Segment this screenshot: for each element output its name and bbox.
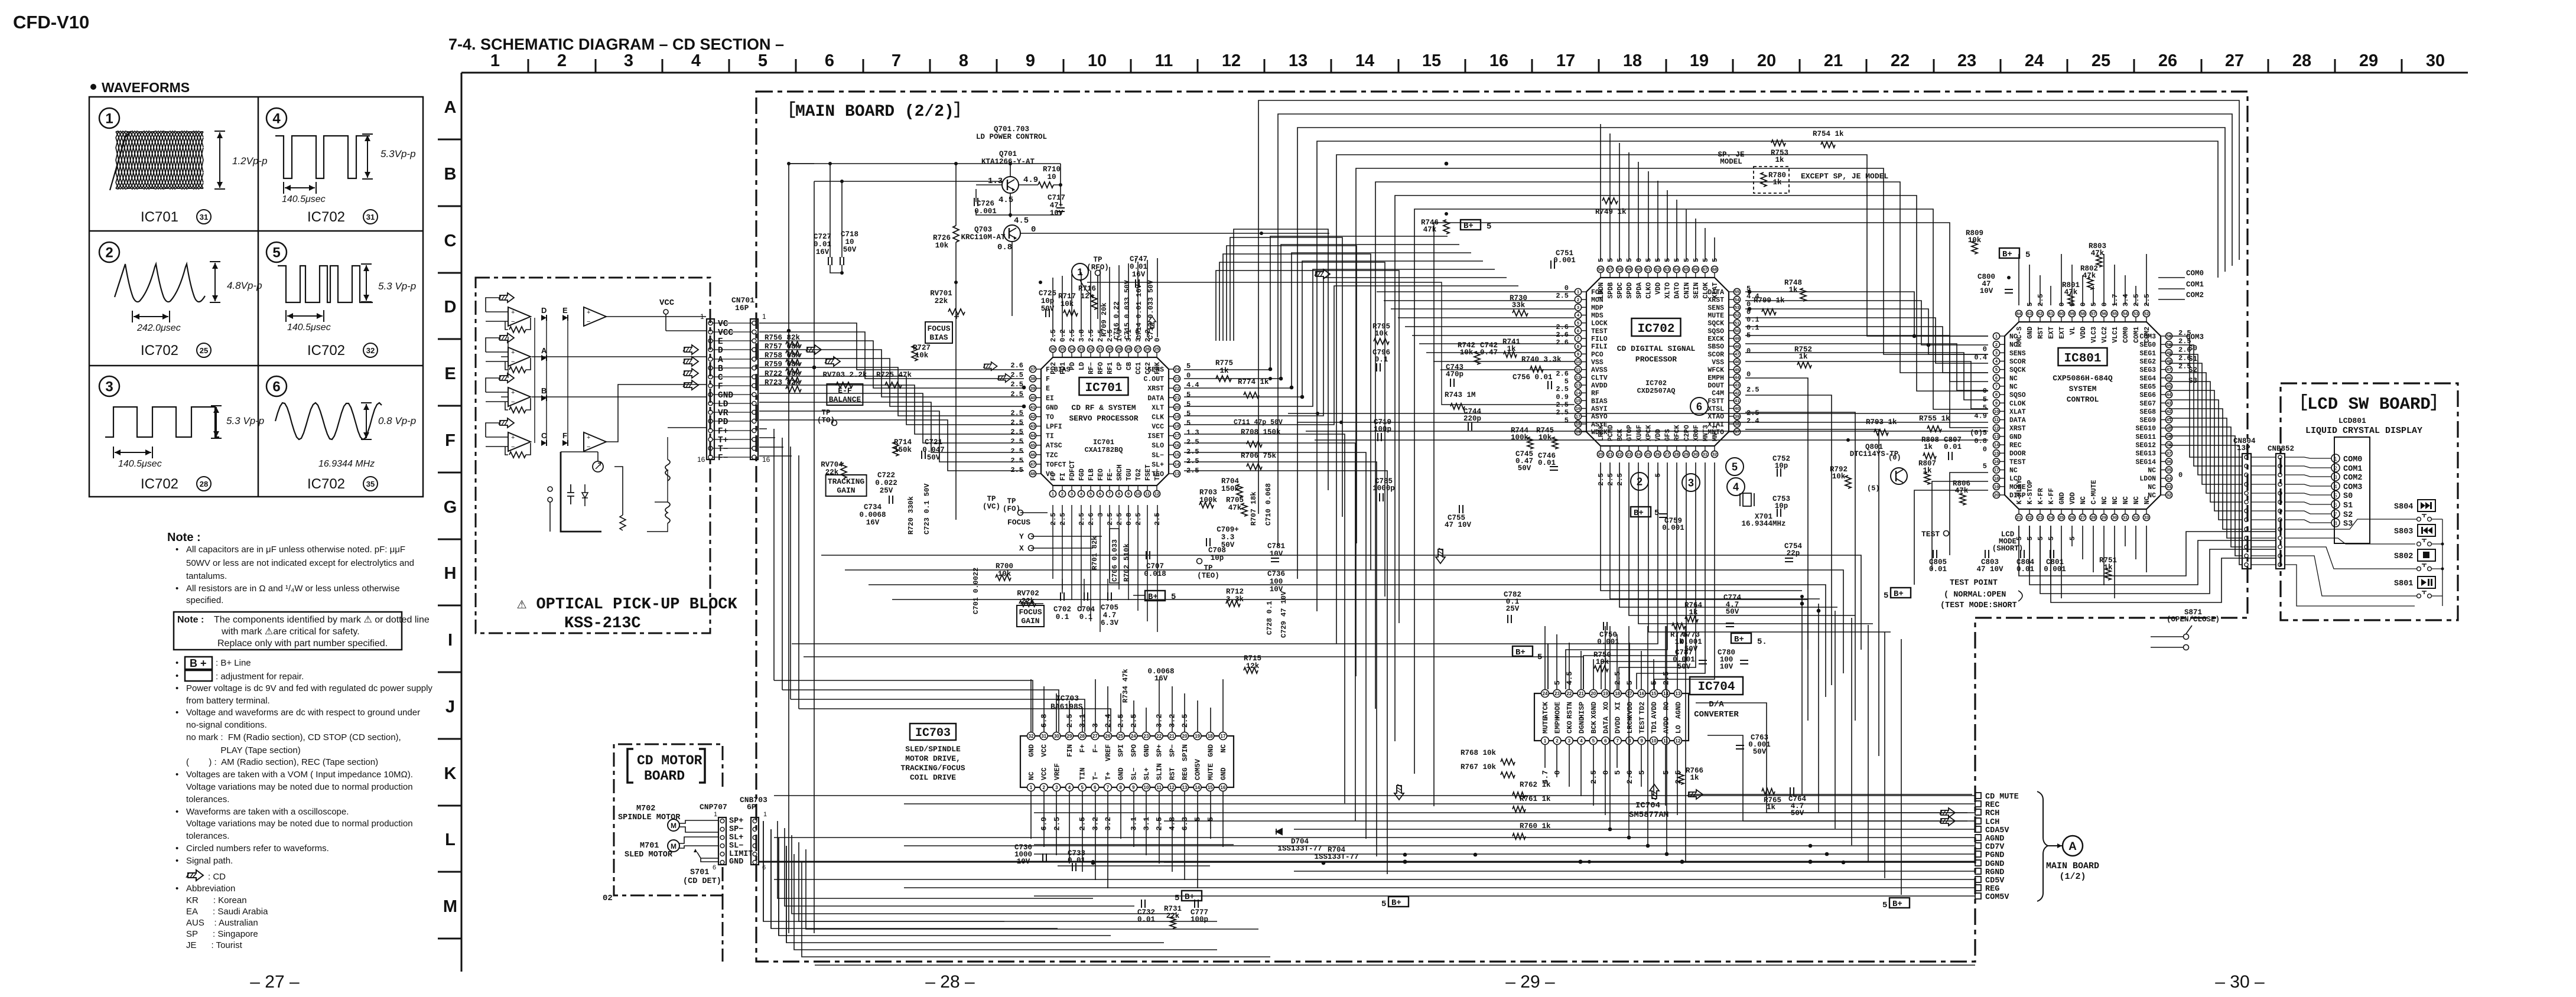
svg-text:150k: 150k [894,446,912,454]
svg-text:1: 1 [105,111,113,127]
svg-text:19: 19 [1576,429,1580,435]
svg-text:1k: 1k [1674,638,1684,646]
B+ bottom [1388,897,1409,907]
svg-text:14: 14 [1175,462,1180,467]
svg-text:GND: GND [718,391,733,400]
down arrow signal [1394,784,1404,800]
svg-text:RV702: RV702 [1017,589,1039,598]
IC702 right pins to IC801 left pins [1745,292,1988,336]
svg-text:MODE: MODE [1554,702,1562,719]
svg-text:29: 29 [1684,452,1689,457]
B+ right of IC702 bottom [1631,507,1651,517]
svg-text:R754 1k: R754 1k [1813,130,1844,138]
svg-text:GND: GND [1143,744,1151,757]
svg-text:10V: 10V [1720,663,1733,671]
svg-text:K: K [444,764,457,783]
svg-text:0: 0 [2058,302,2066,307]
svg-text:19: 19 [1690,51,1709,70]
svg-text:SQCK: SQCK [2009,367,2026,374]
laser diode assembly [593,461,603,472]
svg-text:48: 48 [1735,344,1739,349]
svg-text:33: 33 [2144,515,2149,520]
svg-text:2.5: 2.5 [1010,428,1023,436]
svg-text:TEST: TEST [1638,716,1647,734]
svg-text:5: 5 [1089,491,1092,497]
svg-text:T+: T+ [1104,772,1113,780]
svg-text:6: 6 [1604,738,1607,744]
svg-text:25V: 25V [880,487,893,495]
svg-text:F: F [1046,376,1050,383]
svg-text:22k: 22k [935,297,948,305]
svg-text:DATA: DATA [1602,716,1610,734]
svg-text:1: 1 [1577,289,1579,295]
svg-text:SYSTEM: SYSTEM [2069,385,2097,393]
svg-text:5: 5 [1638,770,1647,775]
svg-text:COM3: COM3 [2186,333,2204,341]
svg-text:R761 1k: R761 1k [1520,795,1551,803]
svg-text:PD: PD [718,418,728,427]
svg-text:1: 1 [1052,491,1054,497]
svg-text:SL+: SL+ [1143,767,1151,780]
svg-text:D: D [718,346,723,356]
svg-text:GND: GND [2058,492,2066,504]
svg-text:42: 42 [1735,390,1739,396]
svg-text:61: 61 [1645,267,1650,272]
svg-text:C707: C707 [1146,562,1164,571]
svg-text:22p: 22p [1787,549,1800,558]
svg-text:A: A [718,356,723,365]
svg-text:12: 12 [1222,51,1241,70]
svg-text:XROF: XROF [1693,425,1700,441]
svg-text:59: 59 [1627,267,1631,272]
left ruler line [461,73,463,972]
svg-text:21: 21 [1579,691,1584,696]
svg-text:CD DIGITAL SIGNAL: CD DIGITAL SIGNAL [1617,344,1696,353]
svg-text:•: • [175,658,178,668]
svg-text:E: E [444,364,456,383]
IC801 system control [2005,322,2161,509]
svg-text:42: 42 [1030,414,1035,419]
svg-text:XPCK: XPCK [1645,425,1653,441]
svg-text:C729 47 10V: C729 47 10V [1280,591,1288,638]
transistor Q701 [1002,177,1019,193]
svg-text:2.6: 2.6 [1556,331,1569,339]
svg-text:NC: NC [2009,375,2018,383]
svg-text:C734: C734 [864,503,882,511]
svg-text:52: 52 [2144,311,2149,317]
svg-text:SPDD: SPDD [1626,282,1634,299]
svg-text:SM5877AM: SM5877AM [1629,810,1668,820]
svg-text:T+: T+ [718,436,728,445]
svg-text:26: 26 [2070,515,2074,520]
svg-text:1.3: 1.3 [1115,329,1124,342]
svg-text:: adjustment for repair.: : adjustment for repair. [216,672,304,682]
svg-text:specified.: specified. [186,595,223,605]
svg-text:EXT: EXT [2048,327,2055,339]
svg-text:IC701: IC701 [141,209,178,225]
svg-text:5: 5 [1614,770,1622,775]
svg-text:2.5: 2.5 [1614,671,1622,685]
svg-text:5: 5 [1625,258,1634,262]
svg-text:F: F [718,382,723,392]
svg-text:PD2: PD2 [1050,362,1058,374]
svg-text:6P: 6P [747,803,756,812]
svg-text:64: 64 [1674,267,1680,272]
svg-text:2: 2 [105,245,113,261]
svg-text:SEG14: SEG14 [2135,458,2156,466]
svg-text:( ) : AM (Radio sectio: ( ) : AM (Radio section), REC (Tape sect… [186,757,378,767]
svg-text:A: A [444,98,457,117]
SECTION:IC703 [900,694,1234,830]
svg-text:AGND: AGND [1985,835,2004,843]
svg-text:Circled numbers refer to wavef: Circled numbers refer to waveforms. [186,843,329,853]
svg-text:15: 15 [1994,451,1999,456]
svg-text:15: 15 [1576,398,1580,403]
svg-text:6: 6 [1577,328,1579,333]
svg-text:43: 43 [2167,400,2171,406]
svg-text:R715: R715 [1244,654,1261,663]
svg-text:39: 39 [1030,386,1035,391]
svg-text:5: 5 [2015,536,2024,540]
SECTION:MOTOR [603,744,767,903]
B+ [1891,588,1911,598]
svg-text:SEG3: SEG3 [2139,367,2156,374]
svg-text:EA : Saudi Arabia: EA : Saudi Arabia [186,907,268,917]
svg-text:24: 24 [1175,367,1180,372]
svg-text:10V: 10V [1050,209,1063,217]
svg-text:1: 1 [1077,266,1082,278]
svg-text:LDON: LDON [1598,282,1605,299]
svg-text:SQSO: SQSO [1707,328,1724,335]
svg-text:SL+: SL+ [729,833,743,842]
svg-text:Q701.703: Q701.703 [994,125,1029,133]
svg-text:15: 15 [1208,785,1213,790]
svg-text:NC: NC [2009,383,2018,391]
adjustment legend [185,670,212,681]
svg-text:37: 37 [1030,367,1035,372]
svg-text:50WV or less are not indicated: 50WV or less are not indicated except fo… [186,558,414,568]
svg-text:30: 30 [2112,515,2117,520]
svg-text:0.001: 0.001 [1553,256,1576,265]
svg-text:PD: PD [1069,362,1076,370]
svg-text:22: 22 [1891,51,1910,70]
svg-text:R767 10k: R767 10k [1461,763,1497,771]
svg-text:EI: EI [1046,395,1054,402]
svg-text:GND: GND [1206,744,1215,757]
svg-text:SBSO: SBSO [1707,343,1724,351]
svg-text:25: 25 [1118,734,1123,739]
svg-text:7: 7 [1616,738,1619,744]
svg-text:SCOR: SCOR [2009,359,2026,366]
svg-text:SLIN: SLIN [1156,763,1164,780]
svg-text:3: 3 [1995,350,1998,356]
svg-text:100p: 100p [1374,425,1391,434]
svg-text:−: − [511,444,515,451]
svg-text:5: 5 [1175,894,1179,903]
svg-text:0.01: 0.01 [814,240,831,249]
svg-text:C728 0.1: C728 0.1 [1266,601,1274,635]
svg-text:37: 37 [2167,451,2171,456]
svg-text:RV704: RV704 [821,461,843,469]
svg-text:NC: NC [2144,496,2151,504]
junction dots [787,162,791,165]
svg-text:2.5: 2.5 [2132,294,2141,307]
svg-text:1k: 1k [1219,367,1229,375]
svg-text:FILI: FILI [1591,343,1608,351]
svg-text:5: 5 [1983,403,1987,412]
svg-text:4.5: 4.5 [998,196,1013,205]
svg-text:15: 15 [1651,691,1657,696]
svg-text:2.6: 2.6 [1010,361,1023,370]
svg-text:M: M [671,822,676,830]
svg-text:MUTE: MUTE [1206,763,1215,780]
svg-text:LIQUID CRYSTAL DISPLAY: LIQUID CRYSTAL DISPLAY [2305,426,2422,436]
svg-text:53: 53 [2133,311,2138,317]
svg-text:M: M [443,897,457,916]
svg-text:5: 5 [1186,410,1191,418]
row I feeds to IC704 [792,644,1548,689]
svg-text:0.001: 0.001 [974,207,997,216]
svg-text:0: 0 [1635,258,1643,262]
svg-text:1.7: 1.7 [2111,294,2119,307]
svg-text:44: 44 [1735,374,1740,380]
svg-text:R743 1M: R743 1M [1445,391,1476,399]
svg-text:LCD801: LCD801 [2338,416,2366,425]
svg-text:C702: C702 [1053,605,1071,614]
svg-text:35: 35 [366,480,375,488]
svg-text:16: 16 [1489,51,1508,70]
svg-text:EMPH: EMPH [1707,374,1724,382]
svg-text:13: 13 [1182,785,1188,790]
svg-text:16.9344 MHz: 16.9344 MHz [318,459,375,469]
svg-text:FILO: FILO [1591,335,1608,343]
svg-text:XLAT: XLAT [1712,282,1719,299]
svg-text:2.5: 2.5 [1049,329,1058,342]
bottom long bus to output connector [774,795,1975,796]
svg-text:TGU: TGU [1126,468,1133,481]
svg-text:COM0: COM0 [2186,269,2204,278]
svg-text:2: 2 [557,51,567,70]
svg-text:0.1: 0.1 [1746,316,1759,324]
svg-text:LD POWER CONTROL: LD POWER CONTROL [976,133,1047,141]
svg-text:40: 40 [1735,406,1739,411]
svg-text:23: 23 [1554,691,1560,696]
svg-text:Voltage variations may be note: Voltage variations may be noted due to n… [186,782,413,792]
svg-text:ATSC: ATSC [1046,442,1062,450]
audio out paths [1689,794,1972,795]
svg-text:2.5: 2.5 [1078,513,1086,526]
svg-text:25: 25 [1645,452,1650,457]
svg-text:CLOK: CLOK [2009,400,2026,408]
svg-text:Voltages are taken with a VOM: Voltages are taken with a VOM ( Input im… [186,770,413,780]
svg-text:R722 68k: R722 68k [765,370,801,378]
svg-text:−: − [511,359,515,366]
svg-text:32: 32 [2133,515,2138,520]
svg-text:A: A [2068,840,2077,853]
svg-text:30: 30 [1693,452,1698,457]
svg-text:DGND: DGND [1985,860,2004,869]
svg-text:37: 37 [1735,429,1739,435]
svg-text:HISP: HISP [1578,702,1586,719]
svg-text:VC: VC [718,320,728,329]
signal arrows RCH LCH [1940,808,1955,817]
svg-text:AGND: AGND [1674,702,1683,719]
svg-text:FOK: FOK [1154,362,1162,374]
svg-text:13: 13 [1994,434,1999,439]
svg-text:LD: LD [1078,362,1086,370]
svg-text:11: 11 [1145,491,1150,497]
svg-text:2.5: 2.5 [1087,329,1095,342]
svg-text:28: 28 [1126,347,1131,352]
svg-text:0.8 Vp-p: 0.8 Vp-p [378,415,416,426]
svg-text:40: 40 [2167,425,2171,431]
svg-text:6: 6 [825,51,834,70]
svg-text:GND: GND [2009,434,2022,441]
IC703 bottom pin drops [1030,791,1032,839]
svg-text:RMC-S: RMC-S [2016,327,2024,347]
loops below IC703 [1034,844,1234,845]
svg-text:COM2: COM2 [2343,474,2362,483]
svg-text:32: 32 [2167,493,2171,498]
svg-text:9: 9 [1640,738,1643,744]
svg-text:1k: 1k [1507,345,1516,353]
svg-text:10: 10 [1088,51,1107,70]
svg-text:ATCK: ATCK [1541,701,1550,719]
svg-text:63: 63 [2027,311,2032,317]
svg-text:1.3: 1.3 [1186,429,1199,437]
svg-text:150k: 150k [1221,485,1240,493]
svg-text:2: 2 [1042,785,1045,790]
svg-text:F−: F− [1091,744,1100,752]
svg-text:2.5: 2.5 [1010,457,1023,465]
svg-text:R723 82k: R723 82k [765,379,801,387]
svg-text:NC: NC [2122,496,2130,504]
svg-text:CONVERTER: CONVERTER [1694,710,1739,719]
svg-text:COM5V: COM5V [1985,893,2009,902]
svg-text:2.5: 2.5 [1597,473,1605,486]
svg-text:−: − [511,318,515,325]
svg-text:RF1: RF1 [1107,362,1114,374]
svg-text:3: 3 [1097,513,1105,517]
svg-text:C: C [444,232,457,250]
IC801 right fan to CN804 [2169,336,2242,457]
dashed vertical near CNB703 (board crossing) [722,895,724,962]
svg-text:C709+: C709+ [1217,526,1239,534]
svg-text:50V: 50V [1518,464,1531,473]
svg-text:WAVEFORMS: WAVEFORMS [102,80,190,95]
svg-text:TP: TP [987,495,996,503]
svg-text:2: 2 [1637,475,1642,487]
svg-text:6: 6 [762,864,766,871]
long control lines to IC801 [1288,413,1988,414]
svg-text:TP: TP [1093,256,1102,264]
svg-text:2.5: 2.5 [1049,513,1058,526]
svg-text:Note :: Note : [177,615,204,625]
svg-text:50V: 50V [1791,809,1804,817]
svg-text:CXD2507AQ: CXD2507AQ [1637,387,1676,395]
svg-text:R707 18k: R707 18k [1250,491,1258,526]
IC702 bottom long verticals to bottom bus [1609,626,1611,829]
svg-text:R712: R712 [1226,588,1244,596]
svg-text:12: 12 [1576,374,1580,380]
main board dashed outline [756,92,2248,962]
SECTION:IC801 [1372,130,1907,562]
svg-text:(0): (0) [1888,454,1901,462]
svg-text:T−: T− [1091,772,1100,780]
svg-text:•: • [175,584,178,594]
svg-text:B+: B+ [2002,250,2012,259]
svg-text:REC: REC [1985,801,1999,810]
svg-text:0: 0 [1746,347,1751,355]
svg-text:32: 32 [1712,452,1717,457]
svg-text:SP−: SP− [1168,744,1176,757]
svg-text:0: 0 [1565,284,1569,292]
svg-text:( NORMAL:OPEN: ( NORMAL:OPEN [1944,591,2006,599]
svg-text:2.5: 2.5 [1606,473,1615,486]
svg-text:10V: 10V [1980,287,1993,295]
svg-text:Abbreviation: Abbreviation [186,884,235,894]
svg-text:2.5: 2.5 [1010,438,1023,446]
svg-text:29: 29 [1067,734,1072,739]
svg-text:COM1: COM1 [2186,281,2204,289]
svg-text:TEST: TEST [2009,458,2026,466]
svg-text:11: 11 [1155,51,1173,70]
top ruler line [461,72,2468,74]
svg-text:5: 5 [272,245,280,261]
svg-text:KR : Korean: KR : Korean [186,895,247,905]
svg-text:XUGF: XUGF [1635,425,1643,441]
svg-text:+: + [587,434,590,441]
svg-text:•: • [175,683,178,693]
svg-text:25V: 25V [1506,605,1520,613]
svg-text:DVDD: DVDD [1614,716,1622,734]
svg-text:VR: VR [718,409,728,418]
svg-text:R720 330k: R720 330k [907,496,915,535]
svg-text:5: 5 [2025,250,2030,260]
svg-text:22: 22 [1175,386,1179,391]
svg-text:AVDD: AVDD [1591,382,1608,390]
monitor PD resistor [614,467,623,515]
svg-text:R755 1k: R755 1k [1919,415,1950,423]
svg-text:29: 29 [2102,515,2106,520]
svg-text:D/A: D/A [1709,700,1724,709]
svg-text:NC: NC [1027,772,1036,780]
svg-text:SPDC: SPDC [1616,282,1624,299]
waveform 1 eye pattern IC701 [116,131,203,189]
svg-text:12: 12 [1154,491,1159,497]
svg-text:10V: 10V [1270,550,1283,558]
svg-text:5: 5 [1983,462,1987,471]
svg-text:FGD: FGD [1078,468,1086,481]
svg-text:［MAIN BOARD (2/2)］: ［MAIN BOARD (2/2)］ [779,101,971,121]
svg-text:5: 5 [2334,493,2337,498]
svg-text:L: L [445,830,456,849]
svg-text:NC: NC [2080,496,2087,504]
svg-text:2.5: 2.5 [1010,371,1023,379]
svg-text:10k: 10k [915,351,929,360]
svg-text:3.3: 3.3 [1221,533,1235,542]
svg-text:20: 20 [1757,51,1776,70]
svg-text:S1: S1 [2343,501,2353,510]
svg-text:SEG2: SEG2 [2139,359,2156,366]
svg-text:SEG5: SEG5 [2139,383,2156,391]
svg-text:26: 26 [1655,452,1660,457]
svg-text:17: 17 [1576,413,1580,419]
svg-text:47k: 47k [1228,504,1242,512]
svg-text:RGND: RGND [1985,868,2004,877]
svg-text:FE−: FE− [1107,468,1114,481]
svg-text:5: 5 [1186,419,1191,428]
